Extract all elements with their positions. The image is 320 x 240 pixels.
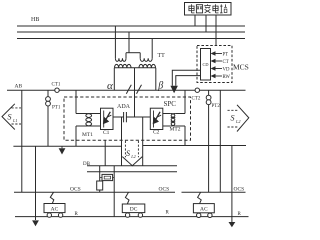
svg-text:S: S [8,113,12,122]
svg-text:CT1: CT1 [52,83,61,88]
svg-text:AC: AC [51,206,59,212]
svg-text:OCS: OCS [70,186,81,192]
svg-text:L1: L1 [12,118,17,123]
svg-text:DC: DC [130,206,138,212]
svg-text:RW: RW [223,75,231,80]
svg-text:OCS: OCS [234,186,245,192]
svg-text:PT: PT [223,52,229,57]
svg-text:S: S [231,114,235,123]
svg-text:C2: C2 [153,130,160,136]
svg-text:TT: TT [158,53,166,59]
svg-text:CT: CT [223,60,229,65]
svg-text:SPC: SPC [164,100,177,108]
svg-text:VD: VD [223,67,230,72]
svg-text:ADA: ADA [117,104,131,110]
svg-text:MT1: MT1 [82,132,93,138]
svg-text:L2: L2 [130,154,135,159]
svg-text:DB: DB [83,162,91,167]
svg-text:AB: AB [15,84,23,90]
svg-text:OCS: OCS [159,186,170,192]
svg-text:AC: AC [200,207,208,213]
svg-text:PT2: PT2 [212,104,221,109]
svg-text:MCS: MCS [233,63,249,72]
svg-text:L2: L2 [235,119,240,124]
svg-text:HB: HB [31,17,39,23]
svg-text:C1: C1 [103,130,110,136]
svg-text:PT1: PT1 [52,106,61,111]
svg-text:CD: CD [203,62,209,67]
svg-text:CT2: CT2 [192,97,201,102]
svg-text:MT2: MT2 [170,127,181,133]
svg-text:S: S [126,149,130,158]
